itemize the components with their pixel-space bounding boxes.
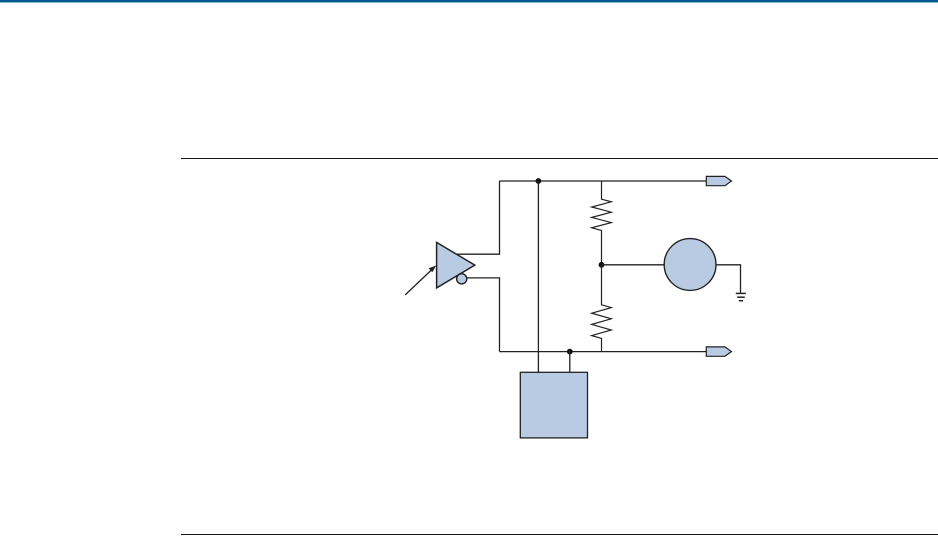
- resistor R2: [592, 265, 612, 352]
- wire: noninverting output to top rail: [457, 181, 500, 254]
- wire: voltage source to ground: [716, 265, 741, 294]
- terminal pin Q: [706, 176, 731, 185]
- wire: node B to voltage source: [602, 264, 665, 266]
- inverting output bubble: [457, 274, 467, 284]
- driver buffer U1: [437, 242, 475, 288]
- wire: node A to termination box: [537, 181, 539, 372]
- footer rule: [181, 534, 938, 535]
- node B junction dot: [599, 262, 605, 268]
- wire: inverting output to bottom rail: [467, 278, 500, 352]
- node A junction dot: [536, 178, 542, 184]
- top header bar: [0, 0, 938, 3]
- voltage source V1: [664, 239, 716, 291]
- terminal pin QB: [706, 347, 731, 356]
- wire: bottom rail: [500, 351, 707, 353]
- node C junction dot: [567, 349, 573, 355]
- termination network box: [520, 372, 587, 438]
- wire: node C to termination box: [569, 352, 571, 373]
- header rule: [181, 158, 938, 159]
- input arrow: [405, 266, 436, 295]
- ground: [736, 293, 746, 300]
- resistor R1: [592, 181, 612, 265]
- wire: top rail: [500, 180, 707, 182]
